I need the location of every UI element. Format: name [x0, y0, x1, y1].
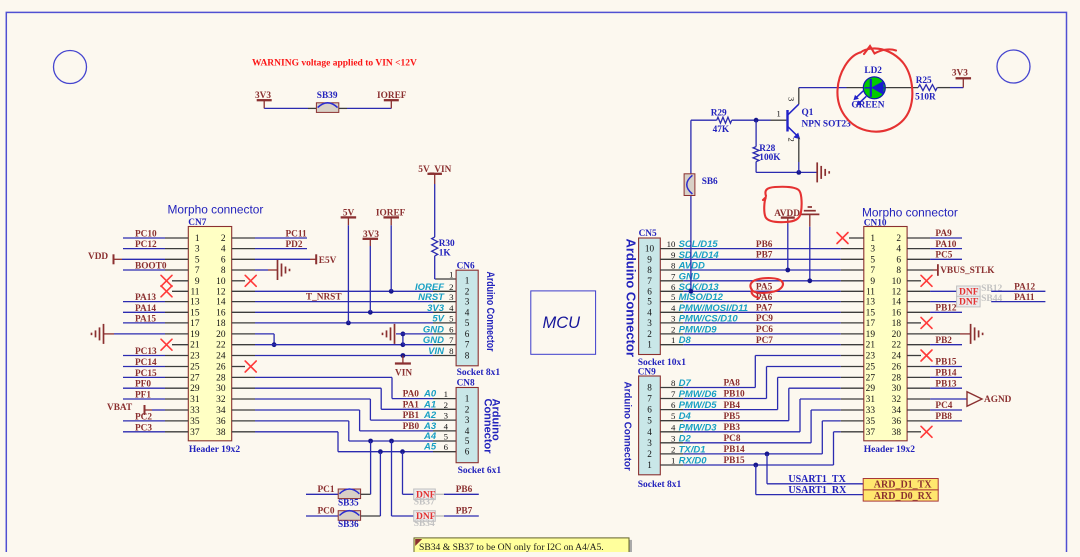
wire R25 to 3V3: [950, 87, 963, 89]
svg-text:15: 15: [866, 308, 876, 318]
pin stub CN7 pin 18: [232, 322, 255, 324]
wire GND vertical to CN5 GND row: [809, 227, 811, 281]
pin stub CN7 pin 27: [165, 376, 188, 378]
svg-text:PF0: PF0: [135, 380, 151, 390]
wire CN5 pin 2 to CN10: [683, 333, 841, 335]
pin stub CN10 pin 28 right: [907, 376, 930, 378]
wire GND net to CN6 pin 7: [255, 344, 403, 346]
solder bridge SB6: [684, 174, 695, 196]
svg-text:2: 2: [465, 286, 470, 296]
svg-text:8: 8: [221, 266, 226, 276]
wire VBAT to CN7 pin 31: [152, 409, 165, 411]
svg-text:3: 3: [444, 411, 449, 421]
solder bridge SB36: [338, 511, 360, 521]
wire CN5 pin 5 to CN10: [683, 301, 841, 303]
svg-text:23: 23: [190, 352, 200, 362]
svg-text:22: 22: [216, 341, 226, 351]
junction GND row: [807, 278, 812, 283]
wire SB6 top to R29: [691, 119, 717, 121]
junction IOREF vertical: [389, 289, 394, 294]
svg-text:17: 17: [866, 319, 876, 329]
svg-text:GND: GND: [423, 324, 444, 335]
wire net PC2 to CN7: [123, 420, 165, 422]
svg-text:SB39: SB39: [317, 91, 338, 101]
svg-text:5: 5: [195, 255, 200, 265]
wire net PA10: [930, 248, 962, 250]
pin stub CN7 pin 2: [232, 237, 255, 239]
pin stub CN6 pin 8: [433, 355, 456, 357]
svg-text:7: 7: [671, 271, 676, 281]
svg-text:SB44: SB44: [981, 294, 1002, 304]
pin stub SB39 left: [308, 107, 316, 109]
wire net PC14 to CN7: [123, 366, 165, 368]
wire net PB14: [930, 376, 962, 378]
wire net PB4 CN9 to CN10: [683, 409, 777, 411]
wire Q1 emitter: [798, 162, 800, 172]
svg-text:PA9: PA9: [935, 229, 952, 239]
wire net PC10 to CN7: [123, 237, 165, 239]
pin stub CN10 pin 1 (no connect): [849, 237, 864, 239]
no-connect X CN7 pin 26: [245, 361, 256, 372]
pin stub CN8 pin 1: [433, 398, 456, 400]
svg-text:3: 3: [787, 97, 797, 101]
svg-text:4: 4: [449, 303, 454, 313]
pin stub CN10 row 3 left: [841, 258, 864, 260]
no-connect X CN10 pin 10: [921, 275, 932, 286]
svg-text:20: 20: [892, 330, 902, 340]
pin stub CN10 row 6 left: [841, 290, 864, 292]
svg-text:3: 3: [465, 415, 470, 425]
svg-text:3: 3: [449, 292, 454, 302]
svg-text:VIN: VIN: [428, 346, 445, 357]
wire net PA14 to CN7: [123, 311, 165, 313]
svg-text:31: 31: [866, 395, 876, 405]
svg-text:18: 18: [892, 319, 902, 329]
pin stub CN5 pin 3: [660, 322, 683, 324]
svg-text:29: 29: [866, 384, 876, 394]
wire net PC3 to CN7: [123, 431, 165, 433]
svg-text:3: 3: [465, 297, 470, 307]
wire net PA8 CN9 to CN10: [683, 387, 755, 389]
pin stub Q1 base: [771, 119, 787, 121]
annotation scribble around LD2: [837, 48, 912, 131]
pin stub CN10 pin 14 DNF SB44: [907, 301, 930, 303]
wire SB39 to IOREF: [347, 107, 391, 109]
svg-text:GND: GND: [423, 335, 444, 346]
wire A5 to SB37: [402, 452, 404, 495]
svg-text:38: 38: [216, 428, 226, 438]
svg-text:13: 13: [866, 298, 876, 308]
connector CN9 body Socket 8x1: [639, 376, 661, 475]
wire CN7 pin 20 down to GND net: [255, 333, 274, 335]
svg-text:A1: A1: [423, 399, 436, 410]
svg-text:8: 8: [647, 265, 652, 275]
svg-text:PA10: PA10: [935, 240, 956, 250]
wire net PC1: [306, 493, 338, 495]
pin stub CN10 pin 2 right: [907, 237, 930, 239]
wire to DNF SB12: [930, 290, 957, 292]
svg-text:7: 7: [870, 266, 875, 276]
svg-text:34: 34: [892, 406, 902, 416]
block MCU: [531, 291, 596, 354]
corner circle top-left: [54, 51, 87, 84]
pin stub CN5 pin 8: [660, 269, 683, 271]
pin stub CN8 pin 3: [433, 419, 456, 421]
svg-text:3: 3: [647, 318, 652, 328]
svg-text:SB12: SB12: [981, 284, 1002, 294]
svg-text:3V3: 3V3: [952, 69, 968, 79]
svg-text:19: 19: [866, 330, 876, 340]
pin stub CN7 pin 20: [232, 333, 255, 335]
svg-text:1: 1: [444, 389, 448, 399]
svg-text:R25: R25: [916, 76, 932, 86]
pin stub CN10 row 13 left: [841, 366, 864, 368]
svg-text:R29: R29: [711, 109, 727, 119]
wire net 3V3 to CN6 pin 4: [255, 311, 433, 313]
port ARD_D0_RX: [863, 490, 938, 501]
svg-text:5: 5: [647, 416, 652, 426]
svg-text:1: 1: [465, 276, 470, 286]
pin stub CN10 pin 8 VBUS: [907, 269, 933, 271]
pin stub Q1 emitter: [798, 137, 800, 162]
resistor R28: [755, 120, 757, 146]
pin stub CN10 pin 36 right: [907, 420, 930, 422]
wire net IOREF to CN6 pin 2: [255, 290, 433, 292]
wire ground to CN7 pin 19: [114, 333, 165, 335]
wire net PB0 from CN7 to CN8: [255, 409, 360, 411]
pin stub CN10 pin 4 right: [907, 248, 930, 250]
svg-text:ARD_D1_TX: ARD_D1_TX: [874, 480, 933, 491]
svg-text:PB12: PB12: [935, 304, 957, 314]
svg-text:PC4: PC4: [935, 401, 952, 411]
svg-text:A5: A5: [423, 442, 437, 453]
svg-text:9: 9: [671, 250, 676, 260]
svg-text:6: 6: [896, 255, 901, 265]
svg-text:6: 6: [444, 442, 449, 452]
wire net 5V to CN6 pin 5: [255, 322, 433, 324]
pin stub CN5 pin 1: [660, 344, 683, 346]
svg-text:12: 12: [216, 287, 226, 297]
wire net PA0 from CN7 to CN8: [255, 376, 392, 378]
svg-text:14: 14: [216, 298, 226, 308]
svg-text:PC3: PC3: [135, 423, 152, 433]
pin stub CN10 row 12 left: [841, 355, 864, 357]
pin stub CN9 pin 4: [660, 431, 683, 433]
svg-text:A4: A4: [423, 431, 437, 442]
pin stub SB37 right: [435, 493, 444, 495]
svg-text:SB34 & SB37 to be ON only for: SB34 & SB37 to be ON only for I2C on A4/…: [419, 542, 604, 552]
wire net PD2: [255, 248, 307, 250]
wire SCK/D13 to SB6: [690, 120, 692, 291]
pin stub CN10 row 7 left: [841, 301, 864, 303]
svg-text:USART1_RX: USART1_RX: [788, 485, 847, 496]
junction SCK/D13: [689, 289, 694, 294]
svg-text:PD2: PD2: [286, 240, 303, 250]
svg-text:SB36: SB36: [338, 520, 359, 530]
svg-text:GREEN: GREEN: [851, 101, 884, 111]
pin stub CN7 pin 7: [165, 269, 188, 271]
svg-text:PA15: PA15: [135, 314, 156, 324]
svg-text:16: 16: [216, 308, 226, 318]
pin stub SB36 right: [361, 515, 381, 517]
no-connect X CN10 pin 1: [837, 233, 848, 244]
power symbol AGND triangle: [967, 392, 982, 407]
pin stub CN7 pin 22: [232, 344, 255, 346]
junction A4 SB35: [368, 439, 373, 444]
pin stub CN7 pin 16: [232, 311, 255, 313]
svg-text:Socket 6x1: Socket 6x1: [458, 466, 502, 476]
junction AVDD: [785, 268, 790, 273]
svg-text:30: 30: [892, 384, 902, 394]
pin stub CN10 pin 38 (no connect): [907, 431, 921, 433]
pin stub CN6 pin 2: [433, 290, 456, 292]
svg-text:14: 14: [892, 298, 902, 308]
wire CN5 pin 4 to CN10: [683, 311, 841, 313]
svg-text:36: 36: [892, 417, 902, 427]
svg-text:12: 12: [892, 287, 902, 297]
pin stub CN10 pin 22 right: [907, 344, 930, 346]
wire net PA13 to CN7: [123, 301, 165, 303]
wire GND vertical CN6 pin6-pin7: [402, 334, 404, 345]
ground symbol at CN10 pin 20: [970, 324, 972, 344]
svg-text:Arduino Connector: Arduino Connector: [484, 272, 496, 352]
svg-text:7: 7: [647, 394, 652, 404]
svg-text:VBUS_STLK: VBUS_STLK: [940, 266, 995, 276]
pin stub CN5 pin 2: [660, 333, 683, 335]
ground symbol at CN6 GND: [394, 324, 396, 344]
pin stub CN10 row 15 left: [841, 387, 864, 389]
svg-text:5: 5: [449, 313, 454, 323]
wire USART1_RX: [755, 465, 757, 495]
pin stub CN10 pin 6 right: [907, 258, 930, 260]
pin stub CN8 pin 4: [433, 430, 456, 432]
svg-text:PB15: PB15: [935, 358, 957, 368]
pin stub CN7 pin 11 (no connect): [172, 290, 188, 292]
junction 3V3 vertical: [368, 310, 373, 315]
svg-text:9: 9: [195, 277, 200, 287]
pin stub CN7 pin 21 (no connect): [172, 344, 188, 346]
svg-text:Header 19x2: Header 19x2: [189, 445, 241, 455]
svg-text:24: 24: [216, 352, 226, 362]
svg-text:PC12: PC12: [135, 240, 157, 250]
pin stub CN7 pin 3: [165, 248, 188, 250]
pin stub CN10 pin 30 right: [907, 387, 930, 389]
svg-text:Arduino Connector: Arduino Connector: [624, 239, 639, 357]
junction GND at CN7 pin 22: [272, 342, 277, 347]
pin stub CN7 pin 38: [232, 431, 255, 433]
svg-text:A2: A2: [423, 410, 437, 421]
wire net PB2: [930, 344, 962, 346]
LED emission arrows: [856, 91, 863, 98]
junction GND at CN6 pin 6: [401, 332, 406, 337]
no-connect X CN7 pin 10: [245, 275, 256, 286]
svg-text:4: 4: [647, 427, 652, 437]
pin stub CN10 row 18 left: [841, 420, 864, 422]
wire AVDD vertical: [787, 224, 789, 271]
svg-text:PB13: PB13: [935, 379, 957, 389]
wire A4 to SB34: [391, 441, 393, 516]
svg-text:SB37: SB37: [414, 498, 435, 508]
pin stub CN7 pin 9 (no connect): [172, 280, 188, 282]
svg-text:5: 5: [465, 318, 470, 328]
wire CN5 pin 1 to CN10: [683, 344, 841, 346]
junction 5V vertical: [346, 321, 351, 326]
wire CN10 pin 20 to ground: [960, 333, 971, 335]
solder bridge SB39: [316, 103, 338, 113]
transistor Q1: [786, 110, 788, 132]
pin stub CN7 pin 31: [165, 409, 188, 411]
svg-text:21: 21: [866, 341, 876, 351]
pin stub CN7 pin 10 (no connect): [232, 280, 245, 282]
pin stub CN10 row 4 left: [841, 269, 864, 271]
svg-text:Q1: Q1: [802, 108, 814, 118]
svg-text:AGND: AGND: [984, 395, 1012, 405]
wire net PB7: [444, 515, 479, 517]
svg-text:Connector: Connector: [482, 399, 494, 455]
wire net PA9: [930, 237, 962, 239]
junction A5 SB37: [400, 449, 405, 454]
svg-text:35: 35: [866, 417, 876, 427]
svg-text:100K: 100K: [759, 153, 781, 163]
pin stub CN5 pin 9: [660, 258, 683, 260]
svg-text:29: 29: [190, 384, 200, 394]
wire R30 to CN6 pin 1: [434, 256, 436, 279]
pin stub CN10 pin 12 DNF SB12: [907, 290, 930, 292]
svg-text:A0: A0: [423, 389, 437, 400]
ground symbol at CN7 pin 19: [103, 324, 105, 344]
wire 3V3 vertical: [369, 246, 371, 312]
wire CN5 pin 6 to CN10: [683, 290, 841, 292]
pin stub CN7 pin 29: [165, 387, 188, 389]
pin stub CN7 pin 15: [165, 311, 188, 313]
wire net PF0 to CN7: [123, 387, 165, 389]
pin stub CN10 pin 18 (no connect): [907, 322, 921, 324]
svg-text:1: 1: [671, 335, 675, 345]
ground symbol at CN7 pin 8: [277, 260, 279, 280]
svg-text:WARNING voltage applied to VIN: WARNING voltage applied to VIN <12V: [252, 59, 417, 69]
wire net PB5 CN9 to CN10: [683, 420, 789, 422]
junction USART1_TX tap: [765, 452, 770, 457]
wire net PC12 to CN7: [123, 248, 165, 250]
corner circle top-right: [997, 50, 1030, 83]
wire R29 to Q1 base: [732, 119, 771, 121]
pin stub CN7 pin 35: [165, 420, 188, 422]
LED LD2: [863, 77, 885, 99]
svg-text:PB14: PB14: [935, 369, 957, 379]
pin stub CN10 pin 24 (no connect): [907, 355, 921, 357]
pin stub CN10 row 19 left: [841, 431, 864, 433]
pin stub CN7 pin 17: [165, 322, 188, 324]
wire net A4 from CN7 pin 36: [255, 420, 349, 422]
annotation scribble around PA5: [750, 278, 783, 298]
svg-text:1: 1: [195, 234, 200, 244]
svg-text:9: 9: [870, 277, 875, 287]
power symbol E5V: [310, 258, 316, 260]
svg-text:1: 1: [647, 460, 652, 470]
svg-text:1: 1: [777, 109, 781, 119]
svg-text:4: 4: [647, 307, 652, 317]
pin stub CN7 pin 36: [232, 420, 255, 422]
pin stub LD2 cathode to R25: [885, 87, 918, 89]
wire net PB14 CN9 to CN10: [683, 453, 822, 455]
svg-text:17: 17: [190, 319, 200, 329]
solder bridge SB37 DNF box: [414, 489, 436, 500]
svg-text:11: 11: [190, 287, 199, 297]
svg-text:LD2: LD2: [864, 66, 882, 76]
svg-text:21: 21: [190, 341, 200, 351]
svg-text:6: 6: [671, 282, 676, 292]
pin stub CN6 pin 6: [433, 333, 456, 335]
junction A4 SB34: [389, 439, 394, 444]
svg-text:37: 37: [866, 428, 876, 438]
connector CN5 body Socket 10x1: [639, 238, 661, 355]
svg-text:SB6: SB6: [702, 177, 718, 187]
svg-text:23: 23: [866, 352, 876, 362]
wire CN5 pin 10 to CN10: [683, 248, 841, 250]
wire CN5 pin 9 to CN10: [683, 258, 841, 260]
svg-text:PC6: PC6: [756, 325, 773, 335]
pin stub CN7 pin 30: [232, 387, 255, 389]
svg-text:7: 7: [465, 340, 470, 350]
svg-text:Socket 10x1: Socket 10x1: [638, 358, 687, 368]
svg-text:PB1: PB1: [403, 411, 420, 421]
svg-text:35: 35: [190, 417, 200, 427]
pin stub CN10 pin 26 right: [907, 366, 930, 368]
svg-text:7: 7: [647, 276, 652, 286]
svg-text:PB2: PB2: [935, 336, 952, 346]
solder bridge SB34 DNF box: [414, 511, 436, 522]
svg-text:PC7: PC7: [756, 336, 773, 346]
svg-text:Morpho connector: Morpho connector: [862, 206, 958, 220]
svg-text:PC0: PC0: [318, 507, 335, 517]
pin stub CN10 row 8 left: [841, 311, 864, 313]
svg-text:PB6: PB6: [756, 240, 773, 250]
pin stub CN9 pin 1: [660, 464, 683, 466]
pin stub CN6 pin 5: [433, 322, 456, 324]
pin stub CN7 pin 6: [232, 258, 255, 260]
svg-text:6: 6: [449, 324, 454, 334]
svg-text:19: 19: [190, 330, 200, 340]
pin stub CN10 row 14 left: [841, 376, 864, 378]
pin stub CN7 pin 34: [232, 409, 255, 411]
pin stub CN6 pin 1: [436, 278, 456, 280]
wire Q1 collector to LED: [799, 87, 847, 89]
svg-text:7: 7: [449, 335, 454, 345]
svg-text:R30: R30: [439, 239, 455, 249]
pin stub CN7 pin 12: [232, 290, 255, 292]
svg-text:8: 8: [647, 383, 652, 393]
wire CN5 pin 8 to CN10: [683, 269, 841, 271]
wire net PB1 from CN7 to CN8: [255, 398, 370, 400]
svg-text:33: 33: [866, 406, 876, 416]
svg-text:PB7: PB7: [456, 507, 473, 517]
wire net PC4: [930, 409, 962, 411]
svg-text:2: 2: [671, 444, 675, 454]
wire net BOOT0 to CN7: [123, 269, 165, 271]
connector CN10 body Header 19x2: [864, 227, 907, 441]
svg-text:5: 5: [444, 432, 449, 442]
no-connect X CN10 pin 24: [921, 350, 932, 361]
svg-text:CN8: CN8: [457, 378, 475, 388]
svg-text:37: 37: [190, 428, 200, 438]
pin stub CN7 pin 23: [165, 355, 188, 357]
svg-text:2: 2: [671, 324, 675, 334]
svg-text:PC15: PC15: [135, 369, 157, 379]
svg-text:510R: 510R: [915, 93, 936, 103]
svg-text:32: 32: [892, 395, 902, 405]
wire net T_NRST to CN6 pin 3: [255, 301, 433, 303]
svg-text:2: 2: [465, 404, 470, 414]
